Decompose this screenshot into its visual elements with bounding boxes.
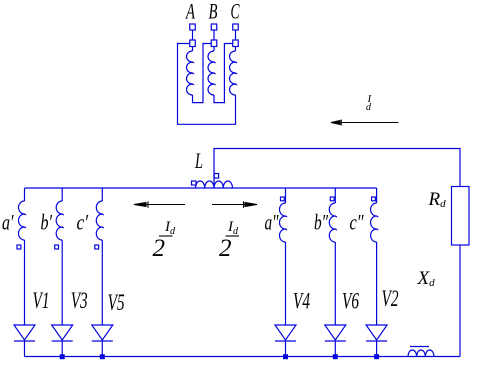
wire: V6 cathode to bus [334,341,336,357]
svg-text:b′: b′ [41,210,53,235]
svg-text:L: L [194,148,203,173]
polarity square a'' [281,197,285,201]
label Rd [428,189,447,210]
svg-text:c″: c″ [350,210,365,235]
label c' [77,210,89,235]
terminal square phase B [211,24,217,30]
label Id/2 right fraction [219,219,239,262]
load resistor Rd [452,187,470,246]
wire: lead A [192,30,194,40]
label Id (load current) [366,93,373,113]
wire: V3 cathode to bus [61,341,63,357]
terminal square phase C [233,24,239,30]
node square B (delta corner) [211,40,217,47]
svg-text:V2: V2 [382,286,399,311]
polarity square b' [55,245,59,249]
label V5 [108,290,125,315]
wire: resistor to bottom corner [459,245,461,357]
wire: bottom bus [25,356,461,358]
svg-text:b″: b″ [314,210,329,235]
label c'' [350,210,365,235]
svg-text:C: C [231,0,240,24]
primary winding B [208,47,216,96]
svg-text:2: 2 [219,235,232,262]
svg-text:V3: V3 [71,288,88,313]
label Xd [417,268,436,289]
phase terminal label B [209,0,218,24]
polarity square c'' [372,197,376,201]
svg-text:c′: c′ [77,210,89,235]
svg-text:A: A [185,0,196,24]
secondary winding b' [56,188,64,325]
label Id/2 left fraction [153,219,177,262]
junction at x=376.6 on bottom bus [374,354,379,359]
wire: secondary top bus [25,187,377,189]
wire: V5 cathode to bus [101,341,103,357]
label V1 [33,288,50,313]
smoothing inductor Xd [408,350,434,357]
label V6 [342,289,359,314]
terminal square phase A [190,24,196,30]
primary winding C [230,47,238,96]
wire: delta C-bottom outer loop to A-top [178,44,236,125]
node square A (delta corner) [190,40,196,47]
label b'' [314,210,329,235]
primary winding A [187,47,195,96]
wire: V2 cathode to bus [376,341,378,357]
wire: center tap to load (top right) [214,149,460,189]
svg-text:V4: V4 [293,289,310,314]
svg-text:Id: Id [164,219,176,237]
svg-text:a″: a″ [265,210,280,235]
label V2 [382,286,399,311]
wire: delta A-bottom to B-top [193,44,212,103]
label V3 [71,288,88,313]
wire: V4 cathode to bus [285,341,287,357]
diode V6 [325,325,346,341]
svg-text:V1: V1 [33,288,50,313]
phase terminal label A [185,0,196,24]
phase terminal label C [231,0,240,24]
polarity square b'' [330,197,334,201]
label V4 [293,289,310,314]
label L [194,148,203,173]
wire: lead C [235,30,237,40]
svg-text:V5: V5 [108,290,125,315]
secondary winding b'' [329,188,337,325]
diode V3 [52,325,73,341]
svg-text:Xd: Xd [417,268,436,289]
diode V4 [275,325,296,341]
svg-text:a′: a′ [2,210,14,235]
polarity square at L center tap [214,174,218,179]
inductor core bar [410,346,429,348]
wire: lead B [213,30,215,40]
label a' [2,210,14,235]
arrow: Id direction (points left) [331,120,399,126]
polarity square c' [95,245,99,249]
svg-text:V6: V6 [342,289,359,314]
diode V2 [366,325,387,341]
secondary winding c'' [371,188,379,325]
arrow: Id/2 right (points right) [212,201,257,208]
node square C (delta corner) [233,40,239,47]
arrow: Id/2 left (points left) [134,201,185,208]
polarity square a' [17,245,21,249]
junction at x=62.2 on bottom bus [60,354,65,359]
polarity square at L left end [192,181,197,185]
interphase reactor L [196,181,233,188]
svg-text:B: B [209,0,218,24]
junction at x=285.5 on bottom bus [283,354,288,359]
junction at x=335.3 on bottom bus [333,354,338,359]
diode V1 [14,325,35,341]
svg-text:2: 2 [153,235,166,262]
wire: V1 cathode to bus [24,341,26,357]
junction at x=102.3 on bottom bus [100,354,105,359]
label a'' [265,210,280,235]
wire: delta B-bottom to C-top [214,44,233,103]
label b' [41,210,53,235]
secondary winding a' [19,188,27,325]
diode V5 [92,325,113,341]
svg-text:Rd: Rd [428,189,447,210]
secondary winding c' [96,188,104,325]
secondary winding a'' [280,188,288,325]
